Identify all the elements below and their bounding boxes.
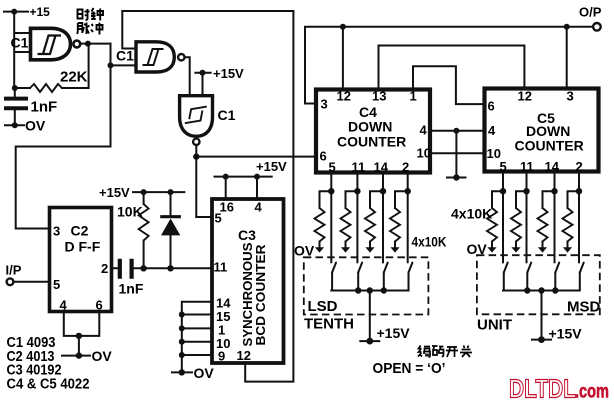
svg-text:6: 6 bbox=[488, 99, 495, 114]
svg-text:BCD COUNTER: BCD COUNTER bbox=[253, 244, 268, 346]
svg-text:C1: C1 bbox=[218, 107, 236, 123]
svg-text:4: 4 bbox=[255, 200, 263, 215]
ground 0V arrow LSD4 bbox=[390, 247, 399, 252]
svg-text:14: 14 bbox=[374, 160, 389, 175]
resistor R2 10K bbox=[117, 192, 149, 268]
wire C4 pin4 to C5 pin4 bbox=[430, 130, 485, 132]
node bus junction bbox=[367, 287, 373, 293]
ground 0V arrow LSD2 bbox=[341, 247, 350, 252]
dashed switch box LSD bbox=[304, 257, 429, 314]
wire output line to O/P bbox=[305, 27, 593, 104]
svg-text:O/P: O/P bbox=[579, 5, 602, 20]
node junction LSD2 bbox=[354, 188, 360, 194]
svg-text:OPEN = ‘O’: OPEN = ‘O’ bbox=[373, 360, 446, 377]
svg-text:.com: .com bbox=[575, 382, 609, 403]
wire C4 pin13 to C5 pin12 bbox=[379, 46, 525, 90]
ground 0V (C2) bbox=[62, 348, 112, 364]
svg-text:11: 11 bbox=[520, 159, 534, 174]
switch SLSD1 bbox=[332, 263, 336, 273]
ground 0V arrow LSD3 bbox=[365, 247, 374, 252]
wire switch common bus bbox=[331, 290, 407, 292]
wire switch common bus bbox=[503, 290, 579, 292]
resistor LSD R4 10K bbox=[395, 191, 408, 208]
svg-text:DLTDL: DLTDL bbox=[509, 374, 576, 404]
wire from +15 to NAND C1a inputs bbox=[14, 12, 29, 88]
wire LSD pin lead 1 bbox=[330, 173, 332, 262]
svg-text:3: 3 bbox=[53, 224, 60, 239]
node gate1 output junction bbox=[80, 41, 110, 47]
node junction pin4 link / termination bbox=[447, 128, 466, 181]
svg-text:4: 4 bbox=[420, 123, 428, 138]
resistor LSD R3 10K bbox=[370, 191, 383, 208]
node bus junction bbox=[355, 287, 361, 293]
switch SMSD3 bbox=[555, 263, 559, 273]
wire gate1 output to gate2 input and DFF clock bbox=[16, 44, 135, 229]
IC C3 synchronous BCD counter (40192) bbox=[212, 199, 284, 363]
resistor MSD R3 10K bbox=[543, 191, 555, 208]
wire LSD pin lead 4 bbox=[407, 173, 409, 262]
wire gate2 output to gate3 input bbox=[185, 57, 190, 95]
node junction MSD2 bbox=[523, 188, 529, 194]
gate U3 NAND C1c facing down bbox=[180, 96, 213, 145]
node junction MSD4 bbox=[576, 188, 582, 194]
wire gate3 output to C3 pin5 bbox=[196, 216, 210, 218]
resistor MSD R1 10K bbox=[492, 191, 503, 208]
node gate2 lower input junction bbox=[108, 62, 114, 68]
wire feedback C3 pin12 to gate2 input bbox=[122, 11, 293, 382]
ground 0V arrow MSD3 bbox=[538, 247, 547, 252]
svg-text:C1: C1 bbox=[116, 48, 134, 64]
label 编码开关 (encoding switch) bbox=[418, 346, 430, 358]
label clock pulse 时钟脉冲 bbox=[78, 9, 90, 20]
svg-text:TENTH: TENTH bbox=[304, 316, 354, 333]
ground 0V arrow MSD1 bbox=[487, 247, 496, 252]
svg-text:COUNTER: COUNTER bbox=[515, 138, 584, 154]
svg-text:3: 3 bbox=[567, 89, 574, 104]
node bus junction bbox=[381, 287, 387, 293]
svg-text:I/P: I/P bbox=[6, 263, 22, 278]
node bus junction bbox=[524, 287, 530, 293]
svg-text:1nF: 1nF bbox=[119, 281, 144, 297]
svg-text:COUNTER: COUNTER bbox=[337, 134, 406, 150]
svg-text:10: 10 bbox=[417, 146, 431, 161]
node +15 supply terminal bbox=[4, 5, 50, 19]
wire MSD pin lead 1 bbox=[502, 173, 504, 262]
svg-text:4x10K: 4x10K bbox=[412, 234, 447, 250]
node junction pins 4-6 bbox=[76, 333, 82, 339]
ground 0V (oscillator) bbox=[5, 118, 46, 134]
svg-text:11: 11 bbox=[214, 260, 228, 275]
svg-text:2: 2 bbox=[101, 261, 108, 276]
node junction MSD1 bbox=[500, 188, 506, 194]
svg-text:10K: 10K bbox=[117, 204, 143, 220]
wire +15V to gate3 second input bbox=[202, 73, 204, 96]
wire C2 pins 4,6 to 0V bbox=[64, 312, 100, 356]
wire C4 pin1 to C5 pin6 bbox=[413, 66, 483, 104]
svg-text:D F-F: D F-F bbox=[65, 239, 101, 255]
watermark DLTDL.com bbox=[509, 374, 609, 404]
svg-text:UNIT: UNIT bbox=[477, 317, 512, 334]
wire LSD pin lead 3 bbox=[382, 173, 384, 262]
resistor MSD R2 10K bbox=[516, 191, 527, 208]
svg-text:OV: OV bbox=[25, 118, 46, 134]
svg-text:+15V: +15V bbox=[377, 325, 411, 341]
svg-text:+15V: +15V bbox=[213, 66, 244, 81]
ground 0V arrow LSD1 bbox=[315, 247, 324, 252]
node +15V supply (LSD switches) bbox=[369, 291, 371, 342]
resistor LSD R2 10K bbox=[346, 191, 358, 208]
wire MSD pin lead 2 bbox=[526, 173, 528, 262]
svg-text:5: 5 bbox=[53, 277, 60, 292]
svg-text:+15V: +15V bbox=[549, 326, 583, 342]
svg-text:2: 2 bbox=[576, 159, 583, 174]
node junction LSD3 bbox=[380, 188, 386, 194]
svg-text:C1: C1 bbox=[11, 35, 29, 51]
node junction LSD4 bbox=[405, 188, 411, 194]
wire MSD pin lead 4 bbox=[578, 173, 580, 262]
switch SLSD3 bbox=[384, 263, 388, 273]
svg-text:12: 12 bbox=[518, 89, 532, 104]
svg-text:+15V: +15V bbox=[99, 185, 130, 200]
node junction LSD1 bbox=[328, 188, 334, 194]
node bus junction bbox=[538, 287, 544, 293]
svg-text:LSD: LSD bbox=[308, 298, 338, 315]
node junction C5 pin3 on O/P line bbox=[564, 24, 570, 88]
svg-text:5: 5 bbox=[500, 159, 507, 174]
svg-text:+15V: +15V bbox=[256, 159, 287, 174]
resistor MSD R4 10K bbox=[568, 191, 580, 208]
svg-text:+15: +15 bbox=[30, 5, 51, 19]
svg-text:4x10K: 4x10K bbox=[451, 206, 492, 222]
node bus junctions bbox=[179, 312, 185, 359]
svg-text:C3: C3 bbox=[238, 227, 256, 243]
node +15V supply (gate3) bbox=[195, 66, 244, 81]
ground 0V arrow MSD2 bbox=[511, 247, 520, 252]
wire LSD pin lead 2 bbox=[356, 173, 358, 262]
svg-text:OV: OV bbox=[294, 243, 315, 259]
svg-text:4: 4 bbox=[60, 298, 68, 313]
svg-text:C2: C2 bbox=[71, 223, 89, 239]
resistor LSD R1 10K bbox=[320, 191, 332, 208]
svg-text:DOWN: DOWN bbox=[348, 119, 392, 135]
capacitor C2out 1nF bbox=[112, 259, 211, 297]
op-amp/gate U1 NAND C1a (4093 Schmitt) bbox=[31, 28, 81, 60]
node I/P input terminal bbox=[6, 263, 50, 286]
node +15V supply (C3 pins 16,4) bbox=[215, 159, 288, 199]
switch SLSD2 bbox=[358, 263, 362, 273]
switch SLSD4 bbox=[409, 263, 413, 273]
svg-text:12: 12 bbox=[337, 89, 351, 104]
dashed switch box MSD bbox=[477, 255, 600, 314]
svg-text:6: 6 bbox=[96, 298, 103, 313]
switch SMSD2 bbox=[527, 263, 531, 273]
svg-text:OV: OV bbox=[467, 241, 488, 257]
svg-text:1nF: 1nF bbox=[31, 99, 58, 116]
node +15V supply (MSD switches) bbox=[541, 291, 543, 340]
IC C2 D flip-flop (4013) bbox=[50, 208, 112, 312]
capacitor C 1nF (oscillator) bbox=[4, 88, 57, 125]
node junction C4 pin12 on O/P line bbox=[340, 24, 346, 89]
svg-text:6: 6 bbox=[320, 149, 327, 164]
switch SMSD4 bbox=[580, 263, 584, 273]
node bus junction bbox=[552, 287, 558, 293]
svg-text:13: 13 bbox=[372, 89, 386, 104]
svg-text:5: 5 bbox=[215, 211, 222, 226]
gate U2 NAND C1b (4093 Schmitt) bbox=[136, 42, 185, 72]
wire C4 pin10 to C5 pin10 bbox=[430, 152, 485, 154]
svg-text:OV: OV bbox=[194, 365, 215, 381]
svg-text:3: 3 bbox=[321, 97, 328, 112]
node junction MSD3 bbox=[551, 188, 557, 194]
svg-text:9: 9 bbox=[218, 349, 225, 364]
svg-text:C4 & C5 4022: C4 & C5 4022 bbox=[7, 377, 90, 393]
svg-text:4: 4 bbox=[488, 123, 496, 138]
node O/P terminal bbox=[579, 5, 602, 31]
svg-text:12: 12 bbox=[237, 348, 251, 363]
node +15V supply (10K/diode) bbox=[99, 185, 184, 200]
IC C5 down counter (4022) bbox=[485, 89, 599, 172]
svg-text:22K: 22K bbox=[60, 69, 88, 86]
resistor R1 22K bbox=[12, 44, 89, 92]
svg-text:1: 1 bbox=[410, 89, 417, 104]
svg-text:OV: OV bbox=[92, 348, 113, 364]
IC C4 down counter (4022) bbox=[316, 90, 430, 173]
node diode junction bbox=[167, 265, 173, 271]
svg-text:MSD: MSD bbox=[567, 299, 601, 316]
ground 0V (C3 bus) bbox=[172, 365, 214, 381]
svg-text:14: 14 bbox=[545, 159, 560, 174]
ground 0V arrow MSD4 bbox=[563, 247, 572, 252]
wire C3 preset pins bus to 0V bbox=[182, 302, 212, 373]
diode D1 clamp bbox=[160, 192, 181, 268]
wire MSD pin lead 3 bbox=[554, 173, 556, 262]
node gate3 output junction bbox=[193, 145, 314, 217]
switch SMSD1 bbox=[504, 263, 508, 273]
node R2 junction bbox=[140, 265, 146, 271]
